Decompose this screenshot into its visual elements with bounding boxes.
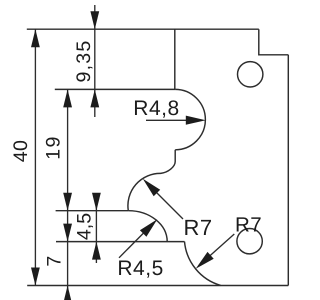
svg-text:R7: R7 — [235, 214, 262, 237]
svg-text:R4,5: R4,5 — [117, 257, 163, 280]
leader R7 lower — [199, 234, 234, 266]
arrow 4,5 bottom (up, outside) — [92, 242, 101, 260]
convex arc R4,5 — [128, 211, 167, 242]
svg-text:R7: R7 — [184, 215, 213, 240]
short vertical below bulge — [174, 150, 176, 162]
concave arc R7 (upper) — [128, 162, 175, 211]
arrow 40 top (up) — [31, 29, 40, 47]
hole bottom right — [237, 229, 262, 254]
arrow 9,35 bottom (up, outside) — [90, 89, 99, 107]
arrow 19 bottom (down) — [63, 193, 72, 211]
cove R7 (lower) — [185, 242, 221, 286]
leader R4,8 — [146, 119, 200, 121]
svg-text:40: 40 — [10, 140, 32, 163]
svg-text:7: 7 — [43, 256, 65, 267]
dim line 9,35 — [94, 5, 96, 117]
profile line at y3 (tongue top) — [56, 210, 129, 212]
dim line 40 — [34, 29, 36, 285]
svg-text:9,35: 9,35 — [73, 40, 95, 83]
hole top right — [238, 62, 263, 87]
leader R7 upper — [146, 182, 183, 219]
leader R4,5 — [119, 233, 143, 257]
arrow 7 bottom (up, outside) — [63, 286, 72, 300]
top edge of knife blank — [27, 28, 259, 30]
arrow 7 top (down, outside) — [63, 224, 72, 242]
bottom edge — [27, 285, 288, 287]
arrow leader R7 lower (down-left) — [196, 252, 214, 269]
svg-text:4,5: 4,5 — [74, 213, 96, 240]
arrow 4,5 top (down, outside) — [92, 193, 101, 211]
profile line at y4 — [56, 241, 185, 243]
arrow 9,35 top (down, outside) — [90, 11, 99, 29]
bulge R4,8 semicircle — [175, 89, 205, 149]
profile line at y2 — [55, 88, 175, 90]
dim line 19 / 7 — [67, 89, 69, 298]
arrow leader R7 upper (up-left) — [143, 179, 160, 196]
arrow 40 bottom (down) — [31, 268, 40, 286]
dim line 4,5 — [95, 196, 97, 263]
svg-text:19: 19 — [43, 135, 65, 160]
right edge — [287, 55, 289, 286]
arrow leader R4,8 (right) — [186, 116, 206, 125]
vertical from top edge down to bulge — [174, 29, 176, 89]
step at top right — [259, 29, 289, 55]
arrow leader R4,5 (up-right) — [140, 219, 157, 236]
svg-text:R4,8: R4,8 — [133, 97, 179, 120]
arrow 19 top (up) — [63, 89, 72, 107]
